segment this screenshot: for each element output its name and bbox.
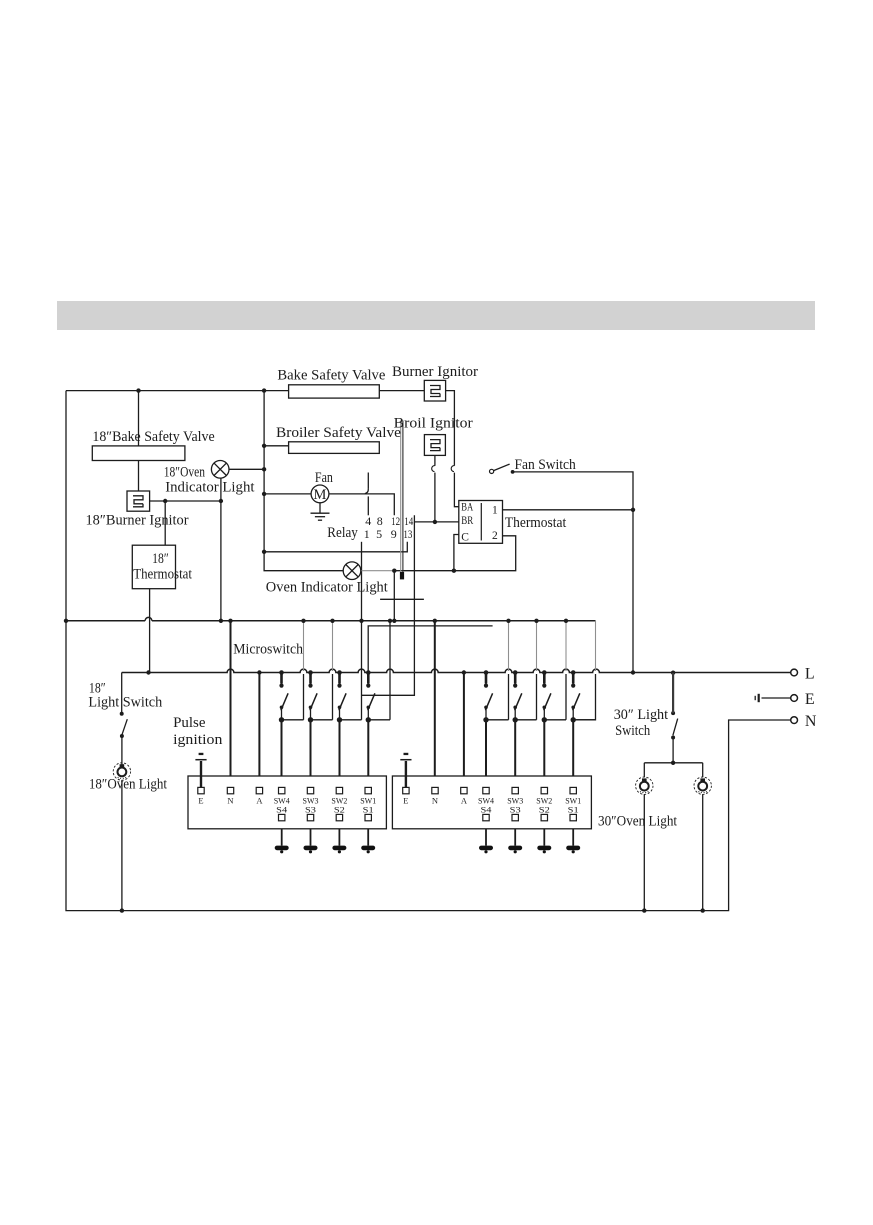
svg-text:5: 5 bbox=[376, 527, 382, 541]
svg-text:Light Switch: Light Switch bbox=[88, 695, 162, 711]
svg-text:A: A bbox=[461, 796, 468, 806]
svg-text:4: 4 bbox=[365, 514, 371, 528]
svg-text:E: E bbox=[403, 796, 408, 806]
svg-text:N: N bbox=[227, 796, 233, 806]
svg-text:2: 2 bbox=[492, 530, 498, 542]
svg-text:18″Bake Safety Valve: 18″Bake Safety Valve bbox=[92, 429, 215, 445]
svg-text:30″ Light: 30″ Light bbox=[614, 707, 669, 723]
svg-text:BR: BR bbox=[461, 515, 473, 527]
svg-text:ignition: ignition bbox=[173, 732, 223, 748]
svg-text:Indicator Light: Indicator Light bbox=[165, 480, 255, 496]
svg-text:Thermostat: Thermostat bbox=[133, 567, 193, 583]
svg-text:S3: S3 bbox=[305, 805, 316, 815]
svg-text:Pulse: Pulse bbox=[173, 715, 206, 731]
svg-text:13: 13 bbox=[403, 527, 412, 541]
svg-text:Relay: Relay bbox=[327, 525, 358, 541]
svg-text:S1: S1 bbox=[363, 805, 374, 815]
svg-text:S2: S2 bbox=[539, 805, 550, 815]
svg-text:Microswitch: Microswitch bbox=[233, 641, 303, 657]
svg-text:Switch: Switch bbox=[615, 723, 651, 739]
svg-text:E: E bbox=[198, 796, 203, 806]
svg-text:30″Oven Light: 30″Oven Light bbox=[598, 813, 678, 829]
svg-text:Burner Ignitor: Burner Ignitor bbox=[392, 364, 478, 380]
svg-text:Broiler Safety Valve: Broiler Safety Valve bbox=[276, 425, 401, 441]
svg-text:18″: 18″ bbox=[152, 551, 169, 567]
svg-text:BA: BA bbox=[461, 502, 474, 514]
svg-text:Thermostat: Thermostat bbox=[505, 515, 567, 531]
svg-text:E: E bbox=[805, 691, 815, 708]
svg-text:18″Oven: 18″Oven bbox=[164, 465, 206, 481]
svg-text:N: N bbox=[805, 713, 817, 730]
svg-text:Fan: Fan bbox=[315, 470, 333, 486]
svg-text:N: N bbox=[432, 796, 438, 806]
svg-text:S2: S2 bbox=[334, 805, 345, 815]
svg-text:Broil Ignitor: Broil Ignitor bbox=[394, 415, 473, 431]
svg-text:C: C bbox=[461, 532, 469, 544]
svg-text:14: 14 bbox=[404, 514, 413, 528]
svg-text:S4: S4 bbox=[276, 805, 288, 815]
svg-text:1: 1 bbox=[492, 505, 498, 517]
svg-text:S4: S4 bbox=[481, 805, 493, 815]
svg-text:8: 8 bbox=[377, 514, 383, 528]
svg-text:M: M bbox=[314, 487, 327, 503]
svg-text:S3: S3 bbox=[510, 805, 521, 815]
svg-text:9: 9 bbox=[391, 527, 397, 541]
svg-text:Fan Switch: Fan Switch bbox=[515, 457, 577, 473]
svg-text:Oven Indicator Light: Oven Indicator Light bbox=[266, 580, 389, 596]
svg-text:S1: S1 bbox=[568, 805, 579, 815]
svg-text:A: A bbox=[256, 796, 263, 806]
svg-text:18″Oven Light: 18″Oven Light bbox=[89, 777, 168, 793]
svg-text:12: 12 bbox=[391, 514, 400, 528]
svg-text:L: L bbox=[805, 666, 815, 683]
svg-text:18″Burner Ignitor: 18″Burner Ignitor bbox=[86, 513, 189, 529]
svg-text:1: 1 bbox=[364, 527, 370, 541]
svg-text:Bake Safety Valve: Bake Safety Valve bbox=[277, 368, 385, 384]
